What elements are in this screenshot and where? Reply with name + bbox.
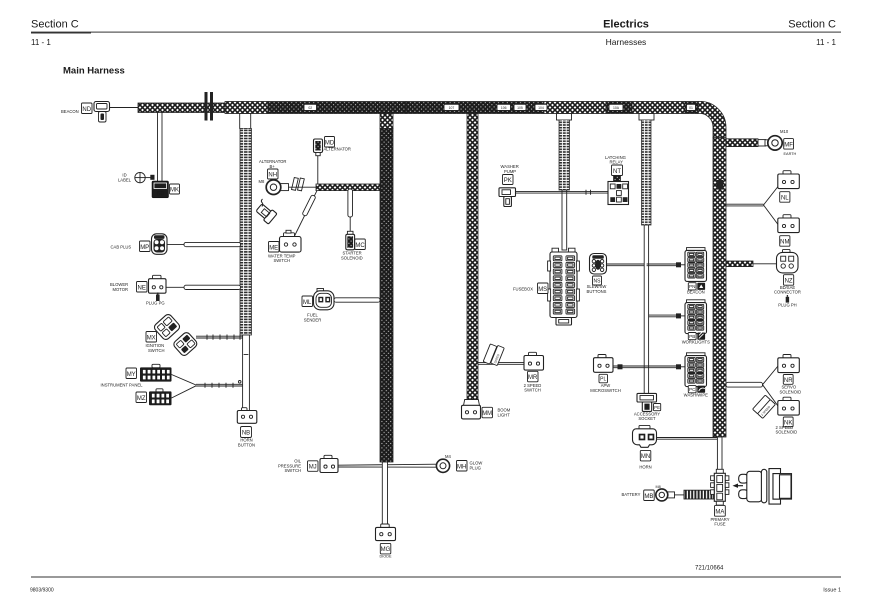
box NS	[593, 276, 602, 285]
svg-text:M8: M8	[259, 179, 265, 184]
connector MD (alternator) plug	[314, 139, 323, 156]
NR/NK fork wires	[763, 366, 779, 406]
main harness band: light weave 544-606	[544, 102, 606, 114]
wire ring to branch band	[289, 186, 317, 188]
clamp marker on right band	[717, 180, 724, 190]
main harness band: light weave 632-685	[632, 102, 685, 114]
spark plug boot symbol	[255, 199, 277, 224]
svg-text:ME: ME	[269, 245, 278, 251]
svg-text:11 - 1: 11 - 1	[816, 38, 836, 47]
horn connector MN	[633, 425, 657, 447]
earth branch ferrule	[758, 140, 766, 146]
svg-text:MA: MA	[715, 509, 724, 515]
main harness band: dark braid 606-632	[606, 102, 632, 114]
sleeve on diagonal wire	[302, 195, 316, 217]
svg-text:DIODE: DIODE	[379, 554, 391, 558]
connector MG 2-pin	[376, 524, 396, 541]
svg-text:BATTERY: BATTERY	[622, 492, 641, 497]
box ME	[269, 242, 280, 253]
svg-text:Section C: Section C	[31, 19, 79, 31]
beacon plug housing	[94, 102, 110, 123]
corrugated column 2 ribbed part	[559, 120, 570, 190]
box MD	[325, 137, 335, 148]
main harness band: thick light weave 225-268	[225, 102, 268, 114]
svg-text:PN: PN	[689, 284, 695, 289]
svg-text:CONNECTOR: CONNECTOR	[774, 290, 801, 295]
wire NL/NM fork	[726, 187, 778, 225]
svg-text:02: 02	[308, 106, 312, 110]
NZ branch band stub	[726, 261, 753, 267]
svg-text:MB: MB	[644, 494, 653, 500]
blower motor 2-pin connector	[149, 275, 167, 293]
svg-text:Electrics: Electrics	[603, 19, 649, 31]
connector ND (beacon)	[82, 103, 93, 114]
svg-text:NR: NR	[784, 378, 793, 384]
boom light collar	[464, 400, 480, 406]
svg-text:Harnesses: Harnesses	[606, 37, 647, 47]
connector NR 2-pin	[778, 355, 800, 373]
box MR	[528, 371, 539, 382]
svg-text:SENDER: SENDER	[304, 317, 321, 322]
box MG	[380, 543, 391, 554]
fusebox body	[548, 248, 580, 325]
ID label symbol (circle with cross)	[135, 172, 155, 182]
svg-text:107: 107	[449, 106, 455, 110]
box MM	[482, 407, 493, 418]
svg-text:PLUG PG: PLUG PG	[146, 300, 165, 305]
svg-text:BUTTON: BUTTON	[238, 442, 255, 447]
plug PG icon	[156, 293, 160, 302]
box PK	[503, 175, 514, 185]
washer pump plug	[499, 188, 516, 207]
svg-text:MS: MS	[538, 287, 547, 293]
svg-text:MG: MG	[381, 547, 391, 553]
box NM	[780, 236, 790, 247]
box MS	[538, 283, 549, 294]
tube from ignition junction down to horn button	[243, 335, 250, 411]
svg-text:M4: M4	[445, 454, 451, 459]
alternator branch band	[316, 184, 380, 191]
harness clamp	[205, 92, 214, 121]
svg-text:105: 105	[517, 106, 523, 110]
svg-text:EARTH: EARTH	[784, 152, 797, 156]
svg-text:PE: PE	[654, 405, 660, 410]
wire APW to relay column	[613, 364, 677, 369]
svg-text:10A: 10A	[613, 106, 620, 110]
water temp switch body	[280, 230, 302, 252]
diagonal wire to water temp switch	[294, 191, 317, 237]
box MY	[126, 368, 137, 379]
box PC + icon (wash/wipe)	[688, 386, 705, 393]
svg-text:HORN: HORN	[639, 464, 651, 469]
2 speed switch 2-pin connector	[524, 352, 544, 370]
main harness band: dark braid 685-698	[685, 102, 698, 114]
sleeve NE wire	[184, 285, 241, 289]
svg-text:MC: MC	[355, 243, 365, 249]
sleeve fuel sender wire	[334, 298, 380, 302]
svg-text:NH: NH	[268, 173, 277, 179]
earth branch band	[726, 139, 758, 147]
wire oil pressure to glow plug ring	[338, 464, 437, 467]
band label marker 02	[304, 104, 317, 110]
svg-text:60: 60	[157, 191, 165, 198]
cab plus round connector	[152, 234, 168, 255]
svg-text:MICROSWITCH: MICROSWITCH	[590, 388, 620, 393]
band label marker 01	[687, 104, 696, 110]
connector NZ (BD/SAE) round 4-pin	[777, 249, 799, 273]
wire junction to relay 3	[676, 364, 685, 369]
latching relay plug	[614, 176, 621, 182]
svg-text:SWITCH: SWITCH	[148, 348, 165, 353]
box MH	[457, 461, 468, 472]
wire vertical to relay 2	[649, 313, 685, 318]
ring terminal M10	[768, 136, 782, 150]
svg-text:M10: M10	[780, 129, 789, 134]
svg-text:BEACON: BEACON	[687, 290, 705, 295]
relay block 1 (beacon relay)	[685, 248, 707, 282]
footer rule	[31, 577, 841, 578]
svg-text:Issue 1: Issue 1	[823, 588, 841, 594]
svg-text:MX: MX	[147, 335, 156, 341]
main harness band: thin left section	[138, 103, 225, 113]
slew/sw buttons connector	[590, 254, 607, 275]
svg-text:MK: MK	[170, 188, 179, 194]
blade terminals beside ring	[292, 178, 305, 191]
svg-text:LABEL: LABEL	[118, 178, 132, 183]
svg-text:NL: NL	[781, 196, 789, 202]
wire to NZ connector	[753, 263, 777, 265]
svg-text:PLUG: PLUG	[470, 466, 481, 471]
right vertical band	[713, 138, 726, 438]
wire MP to harness	[167, 243, 184, 245]
box MB	[644, 490, 655, 501]
APW microswitch 2-pin connector	[594, 355, 614, 373]
box NT	[612, 165, 623, 176]
box NK	[783, 417, 793, 427]
svg-text:LIGHT: LIGHT	[498, 412, 511, 417]
svg-text:Section C: Section C	[788, 19, 836, 31]
tube band end down to primary fuse	[717, 437, 722, 471]
ring terminal M8 (alternator B+)	[266, 180, 288, 195]
svg-text:PL: PL	[600, 377, 606, 383]
svg-text:NM: NM	[780, 240, 789, 246]
starter solenoid drop sleeve	[348, 189, 353, 217]
svg-text:PUMP: PUMP	[504, 169, 516, 174]
connector MK	[170, 184, 180, 194]
connector NE	[137, 282, 148, 293]
svg-text:FUSE: FUSE	[714, 522, 725, 527]
svg-text:PB: PB	[689, 334, 695, 339]
sleeve MP wire	[184, 242, 241, 246]
wire MD down to branch band	[317, 156, 319, 184]
svg-text:ML: ML	[303, 300, 312, 306]
fuel sender connector ML	[314, 289, 335, 310]
main harness band: dark braid 406-544	[406, 102, 544, 114]
svg-text:SWITCH: SWITCH	[524, 388, 541, 393]
svg-text:NB: NB	[242, 431, 250, 437]
boom light 2-pin connector	[462, 405, 481, 419]
svg-text:SWITCH: SWITCH	[284, 468, 301, 473]
svg-text:MJ: MJ	[309, 465, 317, 471]
wire horn to band bottom	[657, 438, 720, 440]
accessory socket	[637, 393, 661, 411]
NR/NK branch sleeve	[726, 382, 763, 387]
svg-text:CAB PLUS: CAB PLUS	[111, 245, 132, 250]
band label marker 107	[444, 104, 459, 110]
wire NE to harness	[166, 286, 184, 288]
svg-text:Main Harness: Main Harness	[63, 66, 125, 77]
svg-text:MH: MH	[457, 464, 466, 470]
wire vertical to relay 1	[647, 262, 685, 267]
band corner top right	[698, 101, 726, 138]
svg-text:MM: MM	[482, 411, 492, 417]
ignition wire with tick marks	[196, 335, 243, 340]
svg-text:MN: MN	[641, 454, 650, 460]
svg-text:PK: PK	[504, 178, 512, 184]
box NL	[780, 192, 790, 203]
vertical band 1 (x380) light top	[380, 114, 393, 129]
wire to starter solenoid plug	[349, 217, 351, 234]
band label marker 10A	[609, 104, 623, 110]
svg-text:SOLENOID: SOLENOID	[341, 255, 363, 260]
corrugated column 3 ribbed part	[642, 120, 652, 225]
box NB	[241, 427, 252, 438]
ring terminal M4 (glow plug)	[436, 459, 449, 472]
connector NH	[268, 169, 279, 179]
box MN	[640, 450, 651, 461]
svg-text:11 - 1: 11 - 1	[31, 38, 51, 47]
band label marker 106	[497, 104, 511, 110]
2 speed switch wire	[478, 363, 524, 365]
wires band to MK label block	[157, 113, 159, 182]
oil pressure switch 2-pin connector	[320, 455, 338, 472]
svg-text:9803/9300: 9803/9300	[30, 588, 54, 594]
relay block 2 (worklights)	[685, 300, 707, 334]
svg-text:RELAY: RELAY	[610, 160, 624, 165]
corrugated column 1 (ignition drop x240)	[240, 114, 252, 336]
main harness band: dark braid 268-406	[268, 102, 406, 114]
box MF	[784, 139, 794, 150]
corrugated column 2 (fusebox drop x563) collar	[557, 114, 572, 121]
primary fuse MA assembly	[711, 469, 729, 505]
battery cable corrugated sleeve	[684, 490, 714, 499]
svg-text:SOCKET: SOCKET	[638, 416, 656, 421]
latching relay block	[608, 182, 629, 205]
band label marker 105	[514, 104, 526, 110]
relay block 3 (wash/wipe)	[685, 353, 707, 387]
connector MZ (instrument panel)	[149, 389, 172, 405]
instrument fork wires	[172, 375, 243, 399]
2 speed flags (solenoid)	[753, 395, 776, 418]
vertical band 1 (x380) dark braid down	[380, 129, 393, 463]
ignition key switch body	[739, 469, 792, 505]
box MJ	[308, 461, 319, 472]
svg-text:ALTERNATOR: ALTERNATOR	[324, 147, 351, 152]
svg-text:NT: NT	[613, 169, 621, 175]
svg-text:106: 106	[501, 106, 507, 110]
svg-text:BEACON: BEACON	[61, 109, 79, 114]
tube band1 end down to MG	[382, 462, 387, 525]
connector MY (instrument panel)	[140, 364, 172, 381]
svg-text:PC: PC	[689, 387, 696, 392]
svg-text:MD: MD	[325, 140, 335, 146]
box MA	[715, 505, 726, 516]
svg-text:721/10664: 721/10664	[695, 566, 724, 572]
key switch pin	[733, 484, 744, 488]
svg-text:MOTOR: MOTOR	[113, 287, 129, 292]
box NZ	[784, 275, 794, 286]
box NR	[783, 375, 793, 385]
svg-text:INSTRUMENT PANEL: INSTRUMENT PANEL	[101, 383, 144, 388]
ignition switch rotated connector upper	[153, 313, 181, 341]
ring terminal battery	[656, 489, 684, 501]
svg-text:FUSEBOX: FUSEBOX	[513, 286, 533, 291]
wire slew to vertical	[607, 264, 645, 266]
wire washer pump to latching relay	[516, 190, 609, 195]
ignition switch rotated connector lower	[172, 331, 198, 357]
box PB + icon (worklights)	[688, 332, 705, 339]
label block 60 (harness ID tag)	[152, 181, 169, 198]
vertical band 2 (x467) light weave	[467, 114, 478, 406]
svg-text:WASH/WIPE: WASH/WIPE	[684, 393, 708, 398]
box MZ	[136, 392, 147, 403]
svg-text:BUTTONS: BUTTONS	[587, 289, 607, 294]
svg-text:SOLENOID: SOLENOID	[780, 389, 802, 394]
connector NM 2-pin	[778, 215, 800, 233]
box ML	[302, 296, 313, 307]
svg-text:NZ: NZ	[785, 279, 793, 285]
svg-text:ND: ND	[82, 107, 91, 113]
fusebox fuses	[553, 256, 574, 314]
wire beacon to band	[110, 107, 139, 109]
connector MX	[146, 332, 157, 343]
box MC	[355, 239, 366, 250]
svg-text:MZ: MZ	[137, 396, 146, 402]
svg-text:PLUG PH: PLUG PH	[778, 303, 796, 308]
band label marker 104	[535, 104, 547, 110]
plug PH icon	[786, 295, 789, 303]
svg-text:SOLENOID: SOLENOID	[776, 430, 798, 435]
ring terminal M10 stub	[765, 140, 771, 146]
speed flags	[483, 344, 504, 366]
corrugated column 2 plain tube to fusebox	[562, 190, 567, 250]
svg-text:104: 104	[538, 106, 544, 110]
svg-text:B+: B+	[270, 164, 276, 169]
horn button 2-pin connector	[237, 408, 256, 424]
box PN + icon (beacon relay)	[688, 283, 705, 290]
connector NK 2-pin	[778, 397, 800, 415]
box PL	[599, 374, 608, 383]
connector NL 2-pin	[778, 171, 800, 189]
svg-text:MF: MF	[784, 142, 793, 148]
corrugated column 3 (accessory drop x646) collar	[639, 114, 654, 121]
svg-text:MP: MP	[140, 245, 149, 251]
connector MP	[140, 241, 151, 252]
corrugated column 3 plain tube down	[644, 225, 648, 394]
svg-text:NE: NE	[138, 285, 146, 291]
svg-text:WORKLIGHTS: WORKLIGHTS	[682, 339, 710, 344]
starter solenoid plug	[346, 231, 355, 250]
svg-text:MR: MR	[528, 375, 538, 381]
svg-text:SWITCH: SWITCH	[274, 258, 291, 263]
svg-text:MY: MY	[127, 372, 136, 378]
svg-text:01: 01	[689, 106, 693, 110]
